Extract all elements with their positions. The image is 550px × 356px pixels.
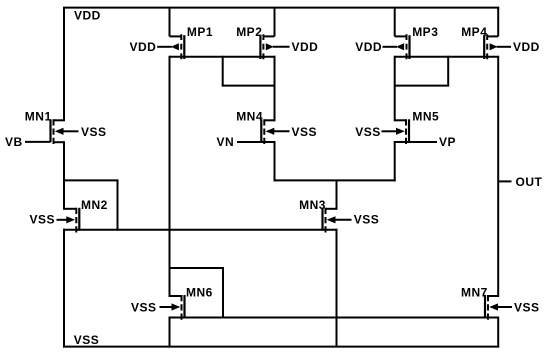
transistor MN6 with VSS bulk arrow [160, 295, 185, 320]
wire MN5 drain lead [395, 119, 406, 121]
svg-text:VB: VB [5, 135, 23, 149]
transistor MP4 with VDD bulk arrow [484, 34, 511, 59]
svg-text:VSS: VSS [30, 213, 56, 227]
wire MN7 drain lead [488, 295, 498, 297]
wire MN1 source lead [54, 141, 65, 143]
svg-text:MP1: MP1 [187, 25, 213, 39]
wire MN1 drain lead [54, 119, 65, 121]
svg-text:MN6: MN6 [186, 285, 213, 299]
svg-text:VSS: VSS [131, 301, 157, 315]
wire VDD top rail [63, 7, 499, 9]
svg-text:VDD: VDD [292, 40, 319, 54]
wire MN4 drain lead [264, 119, 274, 121]
wire MN3 drain lead [326, 208, 337, 210]
wire VN gate lead / MN4 source lead [237, 141, 275, 143]
wire MN3 source down to VSS rail [336, 229, 338, 348]
node MN6 source / MN7 gate line / MN7 source lead [169, 317, 499, 319]
wire MP3 source lead [395, 35, 407, 37]
svg-text:MP2: MP2 [236, 25, 262, 39]
wire MN6 gate-drain box right side [222, 267, 224, 319]
wire MN4 source down to tail node [274, 141, 276, 181]
wire left border / MN1 drain [63, 8, 65, 122]
wire MN6 gate-drain box top [170, 267, 224, 269]
transistor MN2 with VSS bulk arrow [57, 208, 80, 233]
wire MN5 source down to tail node [394, 141, 396, 181]
transistor MP1 with VDD bulk arrow [157, 34, 184, 59]
node MP1 drain / MP1-MP2 gate line [170, 56, 276, 58]
wire tail node line [274, 179, 396, 181]
wire MN1 source to MN2 drain [63, 141, 65, 210]
wire MP4 source to VDD rail [497, 8, 499, 37]
wire MP3 source to VDD rail [394, 8, 396, 37]
wire MN6 drain lead [170, 295, 182, 297]
wire MP2 source to VDD rail [274, 8, 276, 37]
svg-text:VSS: VSS [514, 301, 540, 315]
node bias line MN2 source / MN2-MN3 gates [63, 229, 338, 231]
wire MP2 source lead [263, 35, 274, 37]
transistor MP2 with VDD bulk arrow [260, 34, 289, 59]
wire MP1 source lead [170, 35, 182, 37]
svg-text:VSS: VSS [354, 213, 380, 227]
svg-text:VSS: VSS [292, 125, 318, 139]
wire MN2 gate-drain box top [64, 179, 118, 181]
svg-text:MN5: MN5 [412, 110, 439, 124]
svg-text:VN: VN [217, 135, 235, 149]
transistor MN1 with VSS bulk arrow [51, 119, 79, 144]
svg-text:MN2: MN2 [81, 198, 108, 212]
wire MP3-MP4 sub-box bottom [395, 85, 450, 87]
transistor MN5 with VSS bulk arrow [382, 119, 410, 144]
svg-text:VDD: VDD [130, 40, 157, 54]
svg-text:VSS: VSS [355, 125, 381, 139]
wire MP4 source lead [487, 35, 498, 37]
svg-text:VP: VP [439, 135, 456, 149]
wire MP4 drain down to MN7 drain / OUT node [497, 56, 499, 297]
wire MN6 source down to VSS rail [169, 317, 171, 348]
svg-text:MP3: MP3 [412, 25, 438, 39]
wire MN3 drain up to tail node [336, 179, 338, 209]
wire MP3 drain down to MN5 drain [394, 56, 396, 122]
wire MN2 gate-drain box right side [117, 179, 119, 230]
node MP3 drain / MP3-MP4 gate line [395, 56, 499, 58]
wire MP1 drain down to MN6 drain [169, 56, 171, 297]
wire VSS bottom rail [63, 346, 499, 348]
svg-text:VDD: VDD [355, 40, 382, 54]
svg-text:MN4: MN4 [236, 110, 263, 124]
wire MN2 drain lead [64, 208, 76, 210]
svg-text:MN3: MN3 [299, 198, 326, 212]
wire MN5 source lead / VP gate lead [395, 141, 437, 143]
wire MP2 drain down to MN4 drain [274, 56, 276, 122]
svg-text:MP4: MP4 [461, 25, 487, 39]
transistor MN7 with VSS bulk arrow [485, 295, 512, 320]
wire MN7 source down to VSS rail [497, 317, 499, 348]
wire MN2 source down to VSS rail [63, 229, 65, 348]
wire MP3-MP4 sub-box right side [447, 56, 449, 86]
wire OUT stub [498, 180, 511, 182]
wire MP1-MP2 sub-box left side [222, 56, 224, 86]
svg-text:VSS: VSS [81, 125, 107, 139]
wire MP1 source to VDD rail [169, 8, 171, 37]
svg-text:VDD: VDD [74, 9, 101, 23]
wire VB to MN1 gate [25, 141, 51, 143]
transistor MP3 with VDD bulk arrow [383, 34, 410, 59]
transistor MN3 with VSS bulk arrow [323, 208, 352, 233]
svg-text:VDD: VDD [513, 40, 540, 54]
svg-text:MN7: MN7 [461, 285, 488, 299]
svg-text:MN1: MN1 [25, 110, 52, 124]
wire MP1-MP2 sub-box bottom [222, 85, 276, 87]
transistor MN4 with VSS bulk arrow [261, 119, 289, 144]
svg-text:VSS: VSS [74, 333, 100, 347]
svg-text:OUT: OUT [516, 175, 543, 189]
